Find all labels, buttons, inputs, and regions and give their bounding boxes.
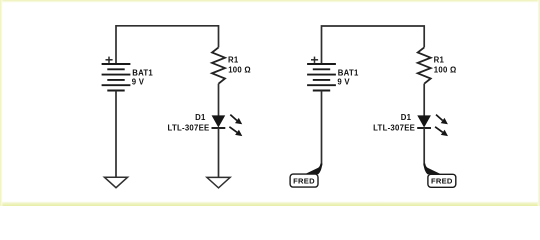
svg-text:D1: D1 bbox=[195, 113, 206, 122]
svg-text:LTL-307EE: LTL-307EE bbox=[168, 123, 210, 132]
wire: right battery- down to FRED flag bbox=[321, 91, 323, 166]
LED D1 (left) bbox=[212, 115, 243, 137]
svg-text:FRED: FRED bbox=[293, 176, 315, 185]
label R1 (right) bbox=[434, 55, 445, 64]
label 9 V (left) bbox=[132, 78, 145, 87]
battery BAT1 (right) bbox=[307, 64, 336, 91]
label BAT1 (right) bbox=[338, 69, 359, 78]
svg-text:9 V: 9 V bbox=[132, 78, 145, 87]
svg-text:R1: R1 bbox=[434, 55, 445, 64]
label LTL-307EE (right) bbox=[373, 123, 415, 132]
svg-text:LTL-307EE: LTL-307EE bbox=[373, 123, 415, 132]
svg-text:BAT1: BAT1 bbox=[132, 69, 153, 78]
ground (left battery branch) bbox=[104, 177, 127, 188]
label 100 Ω (left) bbox=[228, 66, 251, 75]
wire: left battery- to ground bbox=[115, 91, 117, 178]
battery BAT1 (left) bbox=[102, 64, 131, 91]
wire: right circuit top loop (battery+ to resistor) bbox=[322, 26, 425, 64]
wire: left LED to ground bbox=[218, 128, 220, 177]
label R1 (left) bbox=[228, 55, 239, 64]
label D1 (right) bbox=[401, 113, 412, 122]
resistor R1 (right) bbox=[418, 47, 431, 83]
label LTL-307EE (left) bbox=[168, 123, 210, 132]
svg-text:100 Ω: 100 Ω bbox=[434, 66, 457, 75]
label 9 V (right) bbox=[337, 78, 350, 87]
label 100 Ω (right) bbox=[434, 66, 457, 75]
label BAT1 (left) bbox=[132, 69, 153, 78]
wire: left circuit top loop (battery+ to resistor) bbox=[116, 26, 219, 64]
wire: right LED down to FRED flag bbox=[423, 128, 425, 166]
svg-text:9 V: 9 V bbox=[337, 78, 350, 87]
wire: left resistor to LED bbox=[218, 84, 220, 116]
svg-text:D1: D1 bbox=[401, 113, 412, 122]
svg-text:100 Ω: 100 Ω bbox=[228, 66, 251, 75]
svg-text:FRED: FRED bbox=[431, 177, 453, 186]
wire: right resistor to LED bbox=[423, 84, 425, 116]
node FRED (battery branch) flag bbox=[290, 164, 322, 188]
ground (left LED branch) bbox=[207, 177, 230, 188]
resistor R1 (left) bbox=[212, 47, 225, 83]
battery BAT1 plus sign (left) bbox=[106, 57, 113, 63]
battery BAT1 plus sign (right) bbox=[311, 57, 318, 63]
node FRED (LED branch) flag bbox=[423, 164, 455, 188]
LED D1 (right) bbox=[417, 115, 448, 137]
svg-text:BAT1: BAT1 bbox=[338, 69, 359, 78]
label D1 (left) bbox=[195, 113, 206, 122]
svg-text:R1: R1 bbox=[228, 55, 239, 64]
